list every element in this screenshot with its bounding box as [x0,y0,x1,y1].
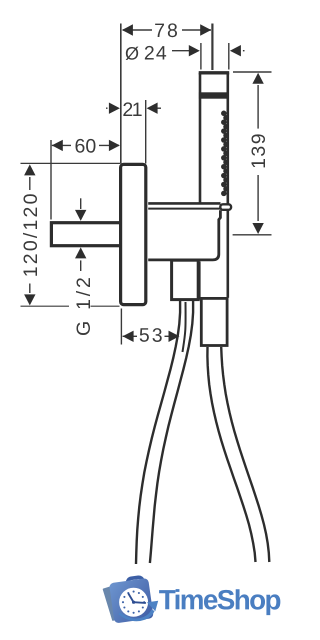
dimension 60 [52,144,71,146]
box B left edge (handle shaft behind block) [198,262,201,299]
dimension 78 [123,29,211,31]
hose strand 1 left outline [136,301,180,564]
logo bag body [109,578,154,624]
logo clock face [119,588,148,617]
wire: extension line left (wall face, shared by dims 78 and 21) [120,24,122,164]
svg-text:Ø: Ø [125,44,139,64]
logo clock hands [129,594,146,603]
holder nub (handle rest pin) [220,204,231,210]
wire: extension line plate front face [145,100,147,164]
svg-text:139: 139 [248,132,270,169]
box C (hose connector below handle) [201,298,227,345]
logo back card [102,585,124,622]
dimension 53 [123,335,137,337]
hand shower handle left edge [199,73,202,204]
svg-text:78: 78 [154,20,180,42]
logo clock ticks [122,591,145,614]
outlet nut box A below block [172,260,199,299]
logo bag handle [127,577,144,590]
dimension G 1/2 arrows [80,198,82,209]
wire: extension line hand shower left edge [200,43,202,70]
hand shower dark band [199,92,229,98]
box B bottom edge [199,297,228,300]
dimension 21 [106,107,108,109]
hand shower spray bead texture [221,111,229,197]
wire: extension line handle axis (right end of dim 78) [211,24,213,71]
svg-text:G 1/2: G 1/2 [73,274,95,336]
holder block right/bottom outline [148,210,220,260]
svg-text:53: 53 [139,325,165,347]
hose strand 1 inner line [183,302,186,352]
dimension 120/120 [21,162,121,164]
TimeShop logo group [102,577,281,624]
hose strand 1 right outline [150,301,193,563]
wire: extension line hand shower right edge [228,43,230,70]
svg-text:TimeShop: TimeShop [159,584,281,615]
wall plate (escutcheon, side view) [121,164,146,304]
hand shower handle right edge [227,73,230,298]
svg-text:120/120: 120/120 [20,191,42,277]
holder block seam line [148,208,220,210]
wire: extension line below plate for 53 [120,309,122,345]
logo swoosh arrow [118,610,154,622]
supply bar (G 1/2 connection, side view) [51,223,121,246]
hand shower head top edge [199,71,230,74]
dimension 139 [233,71,272,73]
svg-text:60: 60 [75,135,97,157]
holder block top line (handle bottom edge) [148,202,220,205]
svg-text:24: 24 [144,42,168,64]
hose strand 2 right outline [221,347,269,562]
wire: extension line supply bar left end [50,140,52,220]
svg-text:21: 21 [122,99,141,121]
hose strand 2 left outline [207,347,255,562]
